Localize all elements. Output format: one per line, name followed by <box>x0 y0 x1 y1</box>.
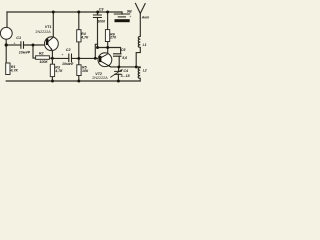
svg-text:4,7К: 4,7К <box>80 36 89 40</box>
wire tap to L2 <box>136 66 140 69</box>
wire R5 leads <box>78 58 80 81</box>
resistor R3 <box>50 64 54 76</box>
capacitor C1 <box>21 41 24 48</box>
wire L1 to tap <box>136 47 140 67</box>
node C3 collector line junction <box>96 46 99 49</box>
wire mic bottom lead <box>5 39 7 63</box>
wire VT2 collector <box>107 48 109 54</box>
wire VT1 emitter lead <box>51 50 53 58</box>
wire mic output line <box>6 44 21 46</box>
inductor L1 <box>138 36 140 47</box>
node R3 bottom on rail <box>51 80 54 83</box>
background <box>0 0 150 100</box>
node C5 bottom junction <box>117 65 120 68</box>
capacitor C4 trimmer <box>114 71 122 74</box>
node C3 jog junction <box>94 57 97 60</box>
node R4 on rail <box>77 11 80 14</box>
svg-text:2N2222A: 2N2222A <box>92 76 108 80</box>
wire C3 jog to base line <box>95 44 97 58</box>
node VT1 emitter junction <box>51 57 54 60</box>
resistor R2 <box>36 56 50 60</box>
node R6 on rail <box>106 11 109 14</box>
wire collector line to C5 <box>98 48 121 54</box>
wire VT2 emitter line <box>111 66 136 68</box>
resistor R1 <box>6 63 10 75</box>
wire antenna feed <box>139 13 141 36</box>
svg-text:10мкФ: 10мкФ <box>62 62 73 66</box>
svg-text:Ант: Ант <box>141 15 150 19</box>
wire bottom rail <box>6 80 140 82</box>
transistor VT1 <box>45 37 59 51</box>
wire R4 bottom lead <box>78 42 80 59</box>
svg-text:1000: 1000 <box>97 19 105 23</box>
wire C4 bottom lead <box>117 74 119 81</box>
wire C2 to VT2 base <box>72 57 100 59</box>
wire R2 right lead <box>49 57 52 59</box>
wire R6 bottom lead <box>107 42 109 48</box>
wire L2 bottom lead <box>139 78 141 81</box>
wire C5 bottom lead <box>118 56 120 67</box>
svg-text:L2: L2 <box>143 68 147 72</box>
svg-text:4,7К: 4,7К <box>54 69 63 73</box>
svg-text:C1: C1 <box>16 36 21 40</box>
svg-text:VT1: VT1 <box>45 25 52 29</box>
resistor R6 <box>105 30 109 42</box>
wire R4 top lead <box>78 12 80 30</box>
svg-text:C4: C4 <box>123 69 128 73</box>
wire C1 to base <box>24 44 48 46</box>
wire emitter node to C2 <box>52 57 68 59</box>
wire left rail <box>6 12 8 28</box>
svg-text:270: 270 <box>109 36 116 40</box>
svg-text:3...18: 3...18 <box>121 74 130 78</box>
node VT1 collector on rail <box>52 11 55 14</box>
battery GB1 <box>114 14 130 17</box>
wire top rail <box>7 11 122 13</box>
svg-text:10К: 10К <box>82 69 89 73</box>
svg-text:100К: 100К <box>39 60 48 64</box>
svg-text:4,7К: 4,7К <box>10 69 19 73</box>
svg-text:L1: L1 <box>143 43 147 47</box>
node C3 on rail <box>96 11 99 14</box>
capacitor C5 <box>113 54 122 56</box>
node tank tap junction <box>135 65 138 68</box>
resistor R5 <box>77 65 81 76</box>
microphone M1 <box>0 27 12 39</box>
antenna W1 <box>135 3 145 14</box>
resistor R4 <box>77 30 81 42</box>
capacitor C3 <box>93 15 102 18</box>
wire battery drop <box>121 12 123 14</box>
transistor VT2 <box>98 53 112 67</box>
wire R3 bottom lead <box>51 58 53 81</box>
node base junction <box>32 44 35 47</box>
node R5 bottom on rail <box>77 80 80 83</box>
wire C3 top lead <box>97 12 99 15</box>
node C4 bottom on rail <box>117 80 120 83</box>
capacitor C2 <box>69 54 72 63</box>
wire C4 top lead <box>118 67 120 72</box>
wire R2 branch drop <box>33 45 36 58</box>
wire C3 bottom lead <box>97 18 99 48</box>
node VT2 collector junction <box>106 46 109 49</box>
wire R6 top lead <box>107 12 109 30</box>
svg-text:10мкФ: 10мкФ <box>19 50 30 54</box>
wire VT1 collector <box>52 12 54 37</box>
svg-text:2N2222A: 2N2222A <box>35 30 51 34</box>
node R4 bottom junction <box>77 57 80 60</box>
inductor L2 <box>138 68 140 79</box>
node mic output junction <box>5 43 8 46</box>
